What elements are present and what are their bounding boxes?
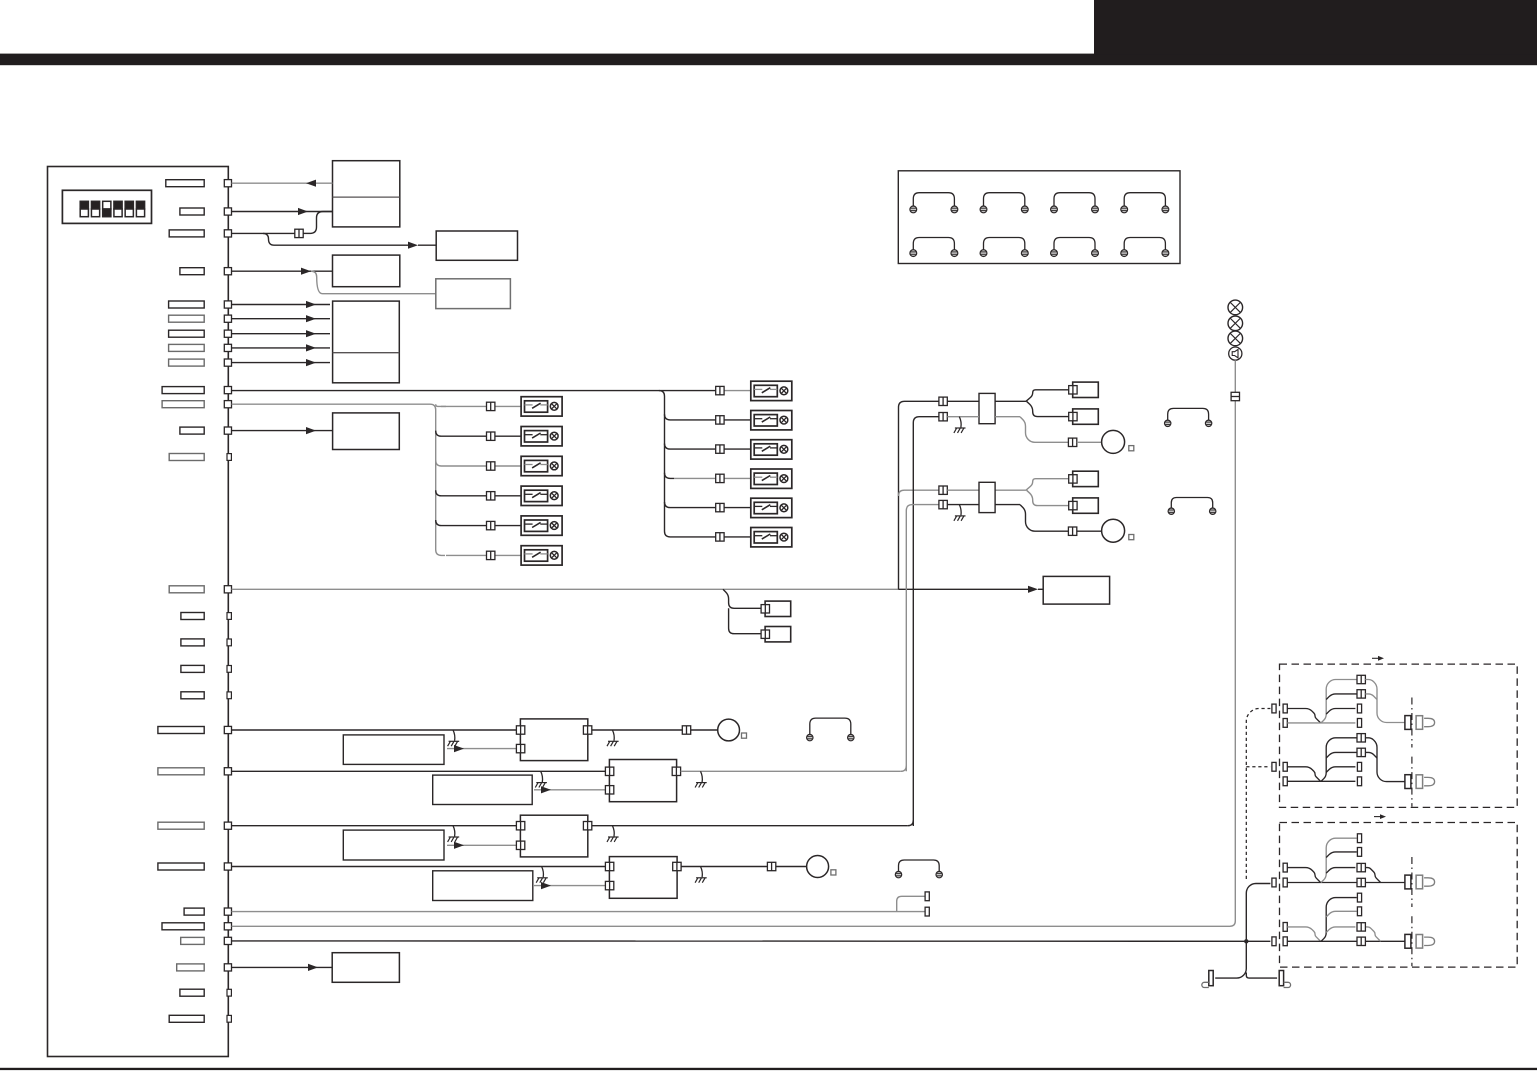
arrow above E1 [1372,656,1384,661]
tab square M2 [1129,535,1134,540]
output channel CH2 (to jack J2) [1272,734,1435,807]
switch-lamp unit SL1 [521,397,562,416]
wire pin940 (dark) [232,940,1271,942]
dashed enclosure E1 [1280,664,1518,807]
bottom plug left [1202,971,1213,988]
IC U1 main microprocessor outline [48,167,229,1057]
page header black bar [0,54,1537,66]
jumper loop LP1 [1165,408,1212,426]
wire pin589 continues to box (dark) [899,586,1044,593]
motor M3 [718,719,740,741]
wire rowB [232,770,606,772]
plug P2 [1069,409,1099,424]
relay group1 wireB connector [939,413,947,421]
jumper loop row1-1 [910,193,958,213]
wire U4 out (to riser) [592,820,914,826]
motor M4 [807,856,829,878]
ground g1 [954,417,966,433]
driver unit U2 (row A) [516,719,591,761]
IC pin name stubs [158,180,204,1023]
tab square M4 [831,870,836,875]
switch-lamp unit SL2 [521,427,562,446]
switch-lamp unit SR5 [751,498,792,517]
ground rowB [535,771,547,787]
switch-lamp unit SR6 [751,528,792,547]
plug P5 [761,601,791,616]
box A1 (two-section unit top-left) [333,161,400,227]
connector before motor M1 [1068,438,1076,446]
jumper loop row2-3 [1051,238,1099,257]
connector before motor M2 [1068,527,1076,535]
relay group1 wireA connector [939,397,947,405]
dashed enclosure E2 [1280,823,1518,968]
wire conn to motor M2 [1077,530,1102,532]
branch pin4 to box A4 (gray) [311,271,436,294]
ground rowD [536,867,548,883]
wire conn to motor M1 [1077,441,1102,443]
ferrite filter F1 [979,393,995,423]
wire pin4 to box A3 [232,268,333,275]
plug P1 [1069,382,1099,397]
relay group2 wireA connector [939,486,947,494]
jumper loop row1-3 [1051,193,1099,213]
wire pin967 to box B2 [232,964,333,971]
lamp L2 [1228,316,1243,331]
relay group2 wireB connector [939,500,947,508]
jumper loop LP2 [1168,498,1216,515]
driver unit U5 (row D) [605,857,681,899]
relay group2 wireB [947,505,1068,532]
wire pin2 to box A1 lower [232,208,333,215]
arrow above E2 [1374,814,1386,819]
jumper loop row2-2 [980,238,1028,257]
wire pin1 to box A1 (arrow left) [232,180,333,187]
ground rowC [448,826,460,842]
relay group1 wireB [947,417,1068,443]
wire U2 out to motor [592,729,718,731]
driver unit U4 (row C) [516,815,591,857]
ground U2out [607,730,619,746]
switch-lamp unit SL3 [521,456,562,475]
wire U5 out to motor [681,866,807,868]
wire pin11 to left switch bus [232,404,446,555]
wire rowA [232,729,517,731]
box A2 [436,231,517,260]
connector on lamp wire [1231,392,1239,400]
wireA fork to plugs [1026,390,1069,417]
switch-lamp unit SR2 [751,411,792,430]
label box LB [433,775,533,804]
right switch row wires [674,391,751,537]
plug P3 [1069,471,1099,486]
jumper loop LP4 [895,860,942,878]
motor M2 [1102,519,1125,542]
label box LC [343,830,444,860]
ground g2 [954,505,966,521]
buzzer B1 [1229,347,1242,360]
page footer rule [0,1068,1537,1070]
ground rowA [448,730,460,746]
driver unit U3 (row B) [605,760,680,802]
switch-lamp unit SL4 [521,486,562,505]
motor M1 [1102,430,1125,453]
drop to bottom plugs [1215,941,1277,978]
wire pin926 (gray) [232,925,1227,927]
wire pin12 to box A6 [232,427,333,434]
tab square M3 [742,733,747,738]
right switch row connectors [716,386,724,541]
lamp L1 [1228,300,1243,315]
left switch row wires [441,406,521,555]
right switch bus [659,391,674,537]
switch-lamp unit SR3 [751,440,792,459]
arrow line rowC [447,842,517,849]
jumper loop row2-1 [910,238,958,257]
left switch bus branches [436,404,446,525]
jumper loop row1-4 [1121,193,1169,213]
junction dot [1244,939,1248,943]
wire U3 out (to riser) [681,766,907,772]
relay group1 wireA [947,400,1026,402]
ground U3out [695,771,707,787]
label box LD [433,871,533,901]
connector before motor M4 [767,862,775,870]
wire pin911 (gray) [232,896,926,911]
pin end 911 [925,907,929,916]
lamp L3 [1228,331,1243,346]
riser U3out to group1 wireB [913,417,939,826]
connector before motor M3 [682,726,690,734]
box B2 [332,953,399,983]
output channel CH3 (to jack J3) [1272,834,1435,907]
ground U5out [695,867,707,883]
plug P6 [761,627,791,642]
switch-lamp unit SR1 [751,381,792,400]
header title block (black) [1094,0,1537,54]
ground U4out [607,826,619,842]
ferrite filter F2 [979,482,995,512]
IC connector pins [224,180,231,1023]
accessory connector box outline [898,171,1180,264]
output channel CH1 (to jack J1) [1272,675,1435,747]
box A3 [333,255,400,287]
jumper loop row2-4 [1121,238,1169,257]
box A4 [436,279,511,309]
riser U2out to group2 wireB [906,505,939,772]
pin end 896 [925,892,929,901]
switch-lamp unit SL5 [521,516,562,535]
left switch row connectors [487,402,495,559]
connector on pin3 wire [295,229,303,237]
branch to plug pair [723,589,761,633]
switch-lamp unit SR4 [751,469,792,488]
wire pin3 with connector [232,212,333,234]
bottom plug right [1279,971,1290,988]
wire rowD [232,866,606,868]
jumper loop LP3 [807,718,854,741]
wireA2 fork to plugs [1026,479,1069,506]
switch-lamp unit SL6 [521,546,562,565]
riser to ch3 input [1246,884,1270,942]
label box LA [343,735,444,765]
DIP switch SW1 (6 elements) [62,190,151,223]
tab square M1 [1129,446,1134,451]
dashed antenna bus [1246,709,1270,880]
arrow line rowB [534,786,605,793]
box A5 (two-section) [333,301,400,383]
wire pin589 main (gray) [232,588,899,590]
wire pin10 to right switch bus [232,390,716,392]
wire rowC [232,825,517,827]
branch pin3 to box A2 [263,233,436,248]
box B1 (right of arrow) [1043,576,1109,604]
arrow line rowD [534,882,605,889]
jumper loop row1-2 [980,193,1028,213]
riser x898 to relay rows [899,401,940,589]
relay group2 wireA [947,489,1026,491]
box A6 [333,413,400,450]
wires pins5-9 to box A5 [232,301,331,366]
arrow line rowA [447,745,517,752]
output channel CH4 (to jack J4) [1272,893,1435,966]
plug P4 [1069,498,1099,513]
wire lamp chain down [1226,360,1235,926]
